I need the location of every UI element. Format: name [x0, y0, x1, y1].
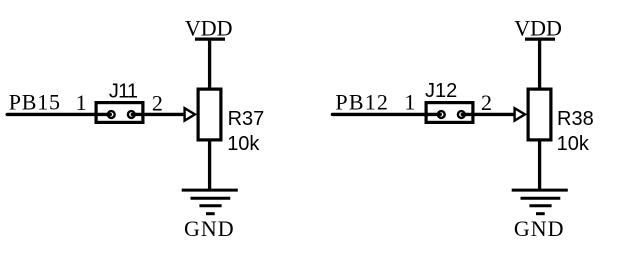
- svg-text:GND: GND: [514, 216, 565, 241]
- svg-text:10k: 10k: [557, 133, 590, 155]
- resistor R37 body: [198, 89, 221, 140]
- jumper J11 body: [96, 103, 143, 123]
- wire J11 pin 2 to R37 wiper: [132, 113, 183, 116]
- svg-text:10k: 10k: [227, 133, 260, 155]
- wire PB12 net to J12 pin 1: [332, 113, 440, 116]
- svg-text:1: 1: [76, 90, 87, 115]
- jumper J12 body: [426, 103, 473, 123]
- power VDD bar (left): [195, 37, 225, 40]
- svg-text:PB15: PB15: [9, 90, 61, 115]
- svg-text:GND: GND: [184, 216, 235, 241]
- svg-text:R38: R38: [557, 108, 594, 130]
- svg-text:J11: J11: [109, 81, 138, 103]
- svg-text:VDD: VDD: [185, 16, 233, 41]
- wiper arrow into R37: [185, 108, 195, 120]
- svg-text:2: 2: [481, 90, 492, 115]
- ground symbol (right): [512, 190, 568, 214]
- wire PB15 net to J11 pin 1: [7, 113, 110, 116]
- power VDD bar (right): [525, 37, 555, 40]
- svg-text:R37: R37: [228, 108, 265, 130]
- wire R38 bottom to ground: [538, 139, 541, 190]
- J12 pin 2 pad: [458, 111, 465, 118]
- svg-text:2: 2: [152, 91, 163, 116]
- svg-text:VDD: VDD: [514, 16, 562, 41]
- svg-text:J12: J12: [425, 80, 457, 102]
- svg-text:PB12: PB12: [335, 90, 389, 115]
- J11 pin 1 pad: [108, 111, 115, 118]
- svg-text:1: 1: [404, 89, 415, 114]
- wiper arrow into R38: [515, 108, 525, 120]
- ground symbol (left): [182, 190, 238, 214]
- wire VDD to R37 top: [208, 39, 211, 90]
- J11 pin 2 pad: [128, 111, 135, 118]
- wire J12 pin 2 to R38 wiper: [462, 113, 513, 116]
- wire VDD to R38 top: [538, 39, 541, 90]
- resistor R38 body: [528, 89, 551, 140]
- J12 pin 1 pad: [438, 111, 445, 118]
- wire R37 bottom to ground: [208, 139, 211, 190]
